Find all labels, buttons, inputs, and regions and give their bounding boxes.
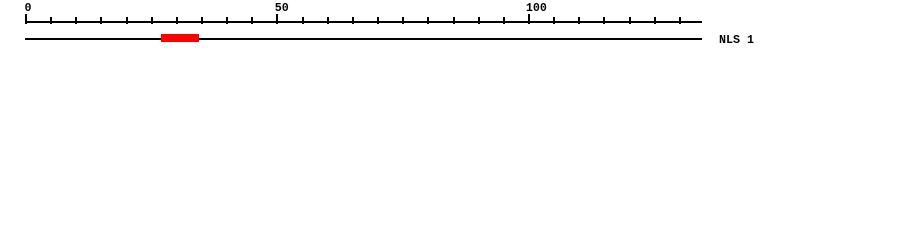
ruler ticks (major at 0,50,100; minor every 5) bbox=[0, 0, 900, 1]
ruler label 0 bbox=[25, 3, 32, 15]
ruler label 100 bbox=[526, 3, 547, 15]
NLS 1 feature box (red) bbox=[161, 34, 199, 42]
sequence line bbox=[25, 38, 702, 40]
feature label NLS 1 bbox=[719, 35, 754, 47]
ruler axis line bbox=[25, 21, 702, 23]
ruler label 50 bbox=[275, 3, 289, 15]
